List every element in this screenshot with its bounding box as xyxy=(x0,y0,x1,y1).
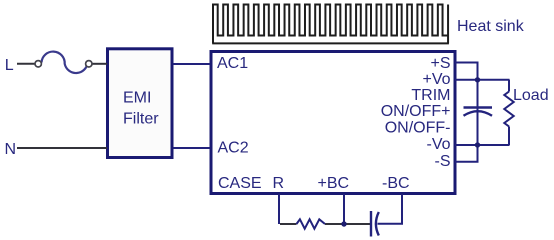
svg-text:AC1: AC1 xyxy=(217,55,248,72)
svg-text:EMI: EMI xyxy=(123,89,151,106)
svg-text:+BC: +BC xyxy=(318,175,350,192)
svg-text:ON/OFF+: ON/OFF+ xyxy=(381,103,451,120)
svg-text:-Vo: -Vo xyxy=(426,136,450,153)
svg-text:TRIM: TRIM xyxy=(411,87,450,104)
svg-text:CASE: CASE xyxy=(218,175,262,192)
svg-text:-S: -S xyxy=(435,153,451,170)
svg-text:Heat sink: Heat sink xyxy=(457,18,525,35)
svg-text:R: R xyxy=(273,175,285,192)
svg-text:+Vo: +Vo xyxy=(422,71,450,88)
svg-text:-BC: -BC xyxy=(382,175,410,192)
svg-text:N: N xyxy=(5,141,17,158)
svg-text:L: L xyxy=(5,57,14,74)
svg-text:AC2: AC2 xyxy=(218,140,249,157)
svg-text:Filter: Filter xyxy=(123,111,159,128)
svg-text:ON/OFF-: ON/OFF- xyxy=(385,120,451,137)
svg-text:+S: +S xyxy=(430,55,450,72)
svg-text:Load: Load xyxy=(513,87,549,104)
